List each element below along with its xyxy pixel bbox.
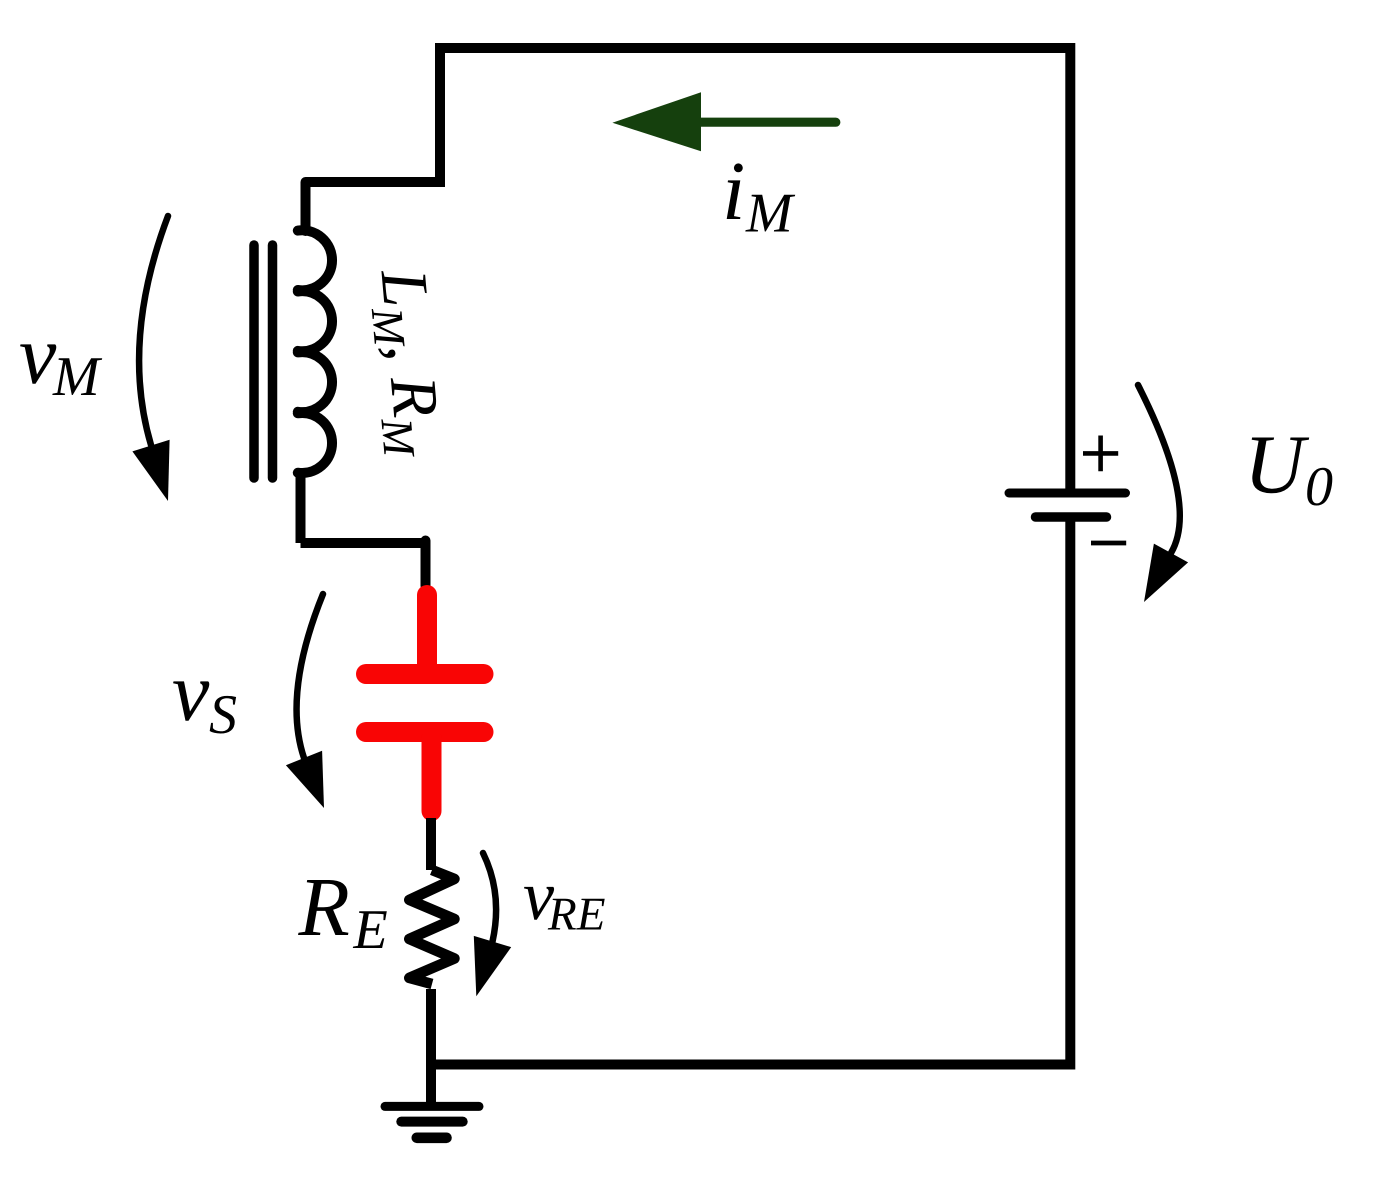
battery U0 short plate (1036, 512, 1107, 522)
current arrow i_M head (green) (612, 92, 701, 151)
ground bar 1 (385, 1102, 479, 1111)
wire resistor to ground (426, 989, 436, 1105)
label R_E (298, 880, 387, 948)
resistor R_E zigzag (409, 870, 454, 984)
iron core line 2 (268, 245, 278, 478)
label v_RE (524, 887, 605, 930)
v_M arrow head (132, 440, 169, 501)
wire vertical to capacitor (421, 541, 431, 587)
v_M arrow arc (139, 216, 168, 445)
battery plus sign (1083, 436, 1118, 472)
wire coil top lead (301, 182, 311, 231)
wire coil bottom lead (296, 470, 306, 543)
capacitor CS top lead (red) (417, 595, 437, 668)
wire right side below battery and bottom wire (431, 522, 1070, 1065)
wire main loop top: left drop, top wire, right wire down to battery (306, 48, 1071, 489)
ground bar 2 (401, 1117, 462, 1127)
ground bar 3 (417, 1133, 447, 1144)
capacitor CS bottom plate (red) (366, 722, 484, 742)
battery U0 long plate (1009, 489, 1126, 498)
v_RE arrow head (474, 936, 511, 996)
label U_0 (1252, 438, 1333, 506)
U_0 arrow arc (1138, 385, 1180, 553)
v_RE arrow arc (483, 853, 496, 942)
label v_M (20, 344, 102, 395)
label i_M (727, 163, 796, 231)
v_S arrow head (286, 751, 324, 808)
iron core line 1 (249, 245, 259, 478)
label L_M, R_M (rotated) (368, 267, 440, 459)
capacitor CS bottom lead (red) (422, 738, 442, 811)
capacitor CS top plate (red) (366, 664, 484, 684)
v_S arrow arc (297, 594, 323, 758)
wire horizontal below coil (301, 538, 426, 548)
battery minus sign (1091, 541, 1126, 546)
label v_S (173, 681, 236, 733)
U_0 arrow head (1144, 544, 1188, 602)
wire capacitor to resistor (426, 818, 436, 870)
inductor L_M coil arcs (298, 230, 332, 473)
current arrow i_M shaft (green) (701, 118, 836, 127)
